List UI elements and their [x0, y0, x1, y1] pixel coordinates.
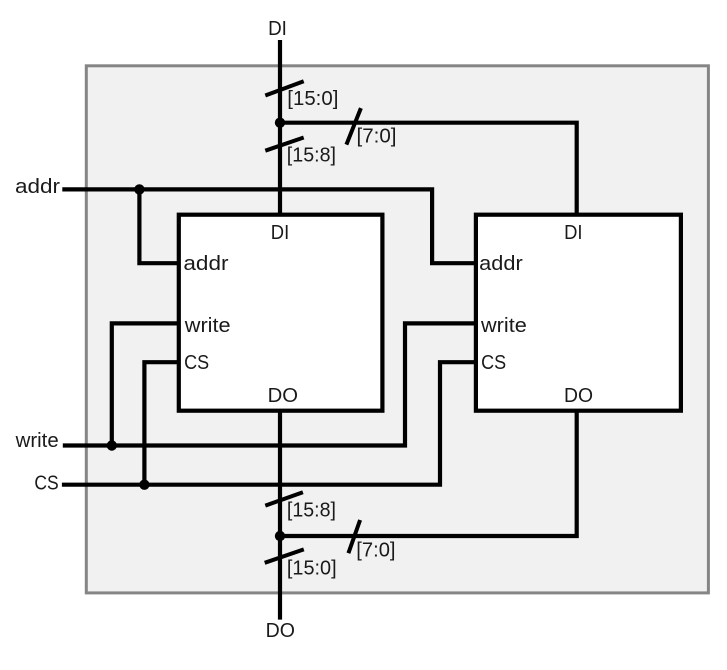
bus slash [15:8] top	[265, 138, 303, 151]
junction dot write	[107, 440, 117, 450]
wire [7:0] bottom branch	[280, 408, 577, 536]
bus slash [15:0] bottom	[265, 549, 304, 562]
svg-text:DO: DO	[564, 385, 593, 407]
svg-text:addr: addr	[479, 253, 523, 275]
svg-text:[7:0]: [7:0]	[357, 126, 397, 148]
module boundary box	[86, 66, 708, 593]
svg-text:DO: DO	[266, 620, 295, 642]
bus slash [7:0] bottom	[348, 520, 360, 553]
wire DO bus vertical	[278, 408, 282, 620]
svg-text:write: write	[480, 315, 527, 337]
wire write rail	[63, 323, 478, 445]
svg-text:DO: DO	[268, 385, 298, 407]
junction dot CS	[139, 480, 149, 490]
wire addr branch to RAM1	[139, 189, 180, 263]
svg-text:addr: addr	[183, 253, 228, 275]
svg-text:write: write	[184, 315, 231, 337]
wire DI bus vertical	[278, 40, 282, 217]
svg-text:[15:0]: [15:0]	[287, 88, 338, 110]
svg-text:addr: addr	[15, 176, 60, 198]
wire [7:0] top branch	[280, 123, 577, 217]
junction dot DO merge	[275, 531, 285, 541]
svg-text:[15:8]: [15:8]	[287, 500, 336, 522]
svg-text:DI: DI	[271, 222, 289, 244]
svg-text:CS: CS	[34, 473, 58, 495]
wire write branch to RAM1	[112, 323, 180, 445]
svg-text:write: write	[15, 430, 59, 452]
bus slash [7:0] top	[346, 108, 361, 145]
RAM block U1	[179, 215, 383, 411]
svg-text:[15:0]: [15:0]	[287, 558, 337, 580]
svg-text:DI: DI	[564, 222, 582, 244]
bus slash [15:0] top	[265, 81, 303, 95]
junction dot DI split	[275, 118, 285, 128]
wire addr rail	[62, 189, 478, 263]
svg-text:CS: CS	[481, 352, 506, 374]
svg-text:DI: DI	[268, 18, 287, 40]
wire CS branch to RAM1	[144, 362, 180, 485]
bus slash [15:8] bottom	[265, 492, 303, 505]
RAM block U2	[476, 215, 681, 411]
svg-text:[15:8]: [15:8]	[287, 144, 336, 166]
wire CS rail	[62, 362, 478, 485]
svg-text:CS: CS	[184, 352, 209, 374]
svg-text:[7:0]: [7:0]	[356, 539, 395, 561]
junction dot addr	[134, 184, 144, 194]
